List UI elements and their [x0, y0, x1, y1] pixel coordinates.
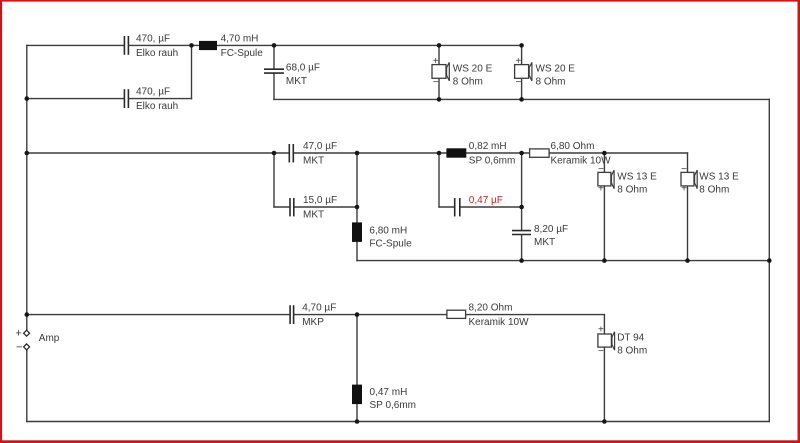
- inductor L4 0.47mH SP 0,6mm: [352, 385, 416, 411]
- svg-text:47,0 µF: 47,0 µF: [303, 141, 337, 152]
- speaker WS13E-2: [681, 164, 739, 195]
- svg-text:8 Ohm: 8 Ohm: [617, 345, 647, 356]
- wire 15uF branch right segment: [295, 206, 358, 208]
- svg-text:0,47 mH: 0,47 mH: [370, 387, 408, 398]
- speaker WS20E-2: [515, 56, 576, 88]
- svg-text:8 Ohm: 8 Ohm: [617, 184, 647, 195]
- inductor L2 0.82mH SP 0,6mm: [446, 141, 515, 167]
- svg-text:−: −: [16, 341, 22, 353]
- wire 047uF branch right segment: [461, 206, 522, 208]
- wire top rail mid segment: [129, 44, 199, 46]
- svg-text:MKT: MKT: [534, 237, 555, 248]
- capacitor C8 4.70uF MKP: [290, 303, 336, 329]
- wire branch2 left segment: [27, 98, 124, 100]
- amp terminal minus: [16, 341, 30, 353]
- svg-text:+: +: [598, 184, 604, 195]
- capacitor C7 8.20uF MKT: [512, 224, 568, 248]
- svg-text:6,80 mH: 6,80 mH: [369, 226, 407, 237]
- wire 15uF branch left drop: [273, 153, 275, 207]
- svg-text:FC-Spule: FC-Spule: [369, 239, 412, 250]
- svg-text:MKT: MKT: [303, 156, 324, 167]
- inductor L3 6.80mH FC-Spule: [352, 222, 412, 249]
- svg-text:0,47 µF: 0,47 µF: [469, 195, 503, 206]
- wire top rail left segment: [27, 44, 124, 46]
- speaker WS20E-1: [432, 56, 493, 88]
- wire WS20E-2 bottom leg: [521, 78, 523, 99]
- wire mid rail segment 4: [549, 152, 687, 154]
- junction rail99 x521: [519, 97, 524, 102]
- inductor L1 4.70mH FC-Spule: [199, 33, 263, 59]
- wire 047uF branch left drop: [438, 153, 440, 207]
- wire x357 bus lower: [356, 242, 358, 261]
- wire WS20E-1 top leg: [438, 45, 440, 64]
- wire 047uF branch left segment: [439, 206, 454, 208]
- junction rail260 x521: [519, 258, 524, 263]
- capacitor C4 47uF MKT: [289, 141, 337, 167]
- svg-text:−: −: [515, 77, 521, 88]
- junction bottom rail x604: [602, 419, 607, 424]
- svg-text:−: −: [598, 346, 604, 357]
- junction left bus y98: [25, 96, 30, 101]
- wire x357 bottom bus upper: [356, 315, 358, 385]
- junction left bus y153: [25, 151, 30, 156]
- wire x357 bus upper: [356, 153, 358, 222]
- wire top rail right segment: [217, 44, 522, 46]
- svg-text:Elko rauh: Elko rauh: [136, 101, 178, 112]
- wire left bus upper: [26, 45, 28, 330]
- svg-text:WS 20 E: WS 20 E: [536, 64, 576, 75]
- junction y207 x357: [355, 205, 360, 210]
- svg-text:MKP: MKP: [302, 317, 324, 328]
- wire x357 bottom bus lower: [356, 404, 358, 421]
- svg-text:8,20 µF: 8,20 µF: [534, 224, 568, 235]
- junction rail260 x687: [685, 258, 690, 263]
- capacitor C3 68uF MKT: [264, 63, 320, 87]
- wire branch2 riser: [191, 45, 193, 98]
- svg-text:470, µF: 470, µF: [136, 87, 170, 98]
- junction mid rail x357: [355, 151, 360, 156]
- svg-text:DT 94: DT 94: [617, 332, 644, 343]
- svg-text:MKT: MKT: [303, 210, 324, 221]
- wire x521 bus upper: [521, 153, 523, 230]
- wire bottom feed segment 1: [27, 314, 290, 316]
- svg-text:+: +: [433, 56, 439, 67]
- svg-text:WS 13 E: WS 13 E: [699, 171, 739, 182]
- svg-text:+: +: [681, 184, 687, 195]
- capacitor C1 470uF Elko rauh: [124, 33, 178, 59]
- junction mid rail x521: [519, 151, 524, 156]
- wire right bus: [768, 99, 770, 421]
- svg-text:8 Ohm: 8 Ohm: [536, 77, 566, 88]
- wire left bus lower: [26, 350, 28, 422]
- junction mid rail x274: [272, 151, 277, 156]
- svg-text:SP 0,6mm: SP 0,6mm: [370, 400, 417, 411]
- svg-text:+: +: [598, 324, 604, 335]
- wire speaker rail y99: [274, 98, 769, 100]
- svg-text:−: −: [598, 164, 604, 175]
- svg-text:WS 20 E: WS 20 E: [453, 64, 493, 75]
- junction rail260 x604: [602, 258, 607, 263]
- svg-text:SP 0,6mm: SP 0,6mm: [469, 156, 516, 167]
- svg-text:4,70 mH: 4,70 mH: [221, 33, 259, 44]
- wire mid rail segment 2: [294, 152, 446, 154]
- junction y207 x521: [519, 205, 524, 210]
- svg-text:6,80 Ohm: 6,80 Ohm: [551, 141, 595, 152]
- capacitor C5 15uF MKT: [290, 195, 337, 221]
- svg-text:470, µF: 470, µF: [136, 33, 170, 44]
- svg-text:−: −: [681, 164, 687, 175]
- junction rail99 x439: [437, 97, 442, 102]
- wire mid rail segment 3: [466, 152, 529, 154]
- wire 68uF top leg: [273, 45, 275, 68]
- wire 68uF bottom leg: [273, 74, 275, 100]
- junction y314 x357: [355, 312, 360, 317]
- svg-text:Amp: Amp: [39, 333, 60, 344]
- capacitor C2 470uF Elko rauh: [124, 87, 178, 113]
- resistor R2 8.20 Ohm Keramik 10W: [447, 303, 529, 329]
- wire x521 bus lower: [521, 235, 523, 261]
- amp terminal plus: [15, 327, 29, 339]
- wire DT94 top leg: [603, 315, 605, 334]
- svg-text:0,82 mH: 0,82 mH: [469, 141, 507, 152]
- junction mid rail x439: [437, 151, 442, 156]
- junction top rail x521: [519, 43, 524, 48]
- svg-text:Keramik 10W: Keramik 10W: [469, 317, 530, 328]
- speaker WS13E-1: [598, 164, 657, 195]
- svg-text:−: −: [433, 77, 439, 88]
- wire branch2 right segment: [129, 98, 191, 100]
- svg-text:+: +: [15, 327, 21, 339]
- wire WS13E-1 bottom leg: [603, 186, 605, 261]
- junction mid rail x604: [602, 151, 607, 156]
- junction top rail x439: [437, 43, 442, 48]
- svg-text:4,70 µF: 4,70 µF: [302, 303, 336, 314]
- svg-text:8 Ohm: 8 Ohm: [699, 184, 729, 195]
- svg-text:8,20 Ohm: 8,20 Ohm: [469, 303, 513, 314]
- wire bottom feed segment 2: [294, 314, 447, 316]
- wire mid rail segment 1: [27, 152, 289, 154]
- wire bottom rail: [27, 421, 770, 423]
- svg-text:Elko rauh: Elko rauh: [136, 48, 178, 59]
- junction top rail x191: [189, 43, 194, 48]
- resistor R1 6.80 Ohm Keramik 10W: [530, 141, 611, 167]
- junction top rail x274: [272, 43, 277, 48]
- wire 15uF branch left segment: [274, 206, 289, 208]
- wire bottom feed segment 3: [466, 314, 605, 316]
- speaker DT94 tweeter: [598, 324, 647, 357]
- wire WS20E-1 bottom leg: [438, 78, 440, 99]
- wire WS13E-1 top leg: [603, 153, 605, 172]
- wire WS13E-2 bottom leg: [687, 186, 689, 261]
- svg-text:MKT: MKT: [286, 76, 307, 87]
- wire WS13E-2 top leg: [687, 153, 689, 172]
- junction rail260 x769: [767, 258, 772, 263]
- svg-text:8 Ohm: 8 Ohm: [453, 77, 483, 88]
- wire rail260: [357, 260, 769, 262]
- junction left bus y314: [25, 312, 30, 317]
- junction bottom rail x357: [355, 419, 360, 424]
- svg-text:15,0 µF: 15,0 µF: [303, 195, 337, 206]
- svg-text:FC-Spule: FC-Spule: [221, 48, 264, 59]
- wire WS20E-2 top leg: [521, 45, 523, 64]
- svg-text:+: +: [515, 56, 521, 67]
- svg-text:WS 13 E: WS 13 E: [617, 171, 657, 182]
- capacitor C6 0.47uF: [455, 195, 503, 216]
- svg-text:68,0 µF: 68,0 µF: [286, 63, 320, 74]
- wire DT94 bottom leg: [603, 347, 605, 421]
